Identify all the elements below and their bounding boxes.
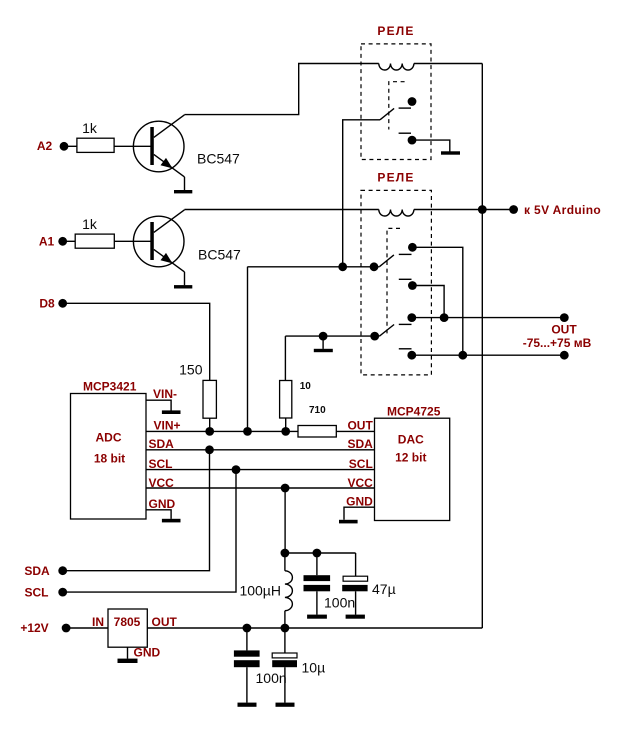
relay K2 lever A	[380, 255, 394, 267]
wire D8 to R 150	[63, 303, 210, 380]
wire common B to ground	[322, 336, 324, 349]
svg-text:MCP3421: MCP3421	[83, 380, 137, 394]
terminal D8	[39, 297, 67, 311]
terminal A1	[39, 234, 67, 248]
relay K2 contact B NO	[399, 313, 416, 324]
wire Q2 collector to relay 2 coil	[185, 209, 379, 211]
node SDA	[205, 445, 214, 454]
svg-text:GND: GND	[134, 646, 161, 660]
wire R 150 to VIN+	[209, 418, 211, 431]
svg-text:100n: 100n	[324, 595, 355, 611]
relay K1 linkage (dashed)	[389, 82, 405, 130]
svg-text:GND: GND	[346, 494, 373, 508]
wire VCC row	[146, 487, 375, 489]
wire SCL terminal to SCL row	[63, 470, 236, 592]
svg-text:OUT: OUT	[551, 323, 577, 337]
svg-text:к 5V Arduino: к 5V Arduino	[524, 203, 601, 217]
node commonA/VIN+	[243, 427, 252, 436]
node SCL	[232, 465, 241, 474]
ground (C2)	[346, 615, 365, 619]
relay K2 body (dashed)	[361, 190, 431, 375]
svg-text:D8: D8	[39, 297, 55, 311]
IC U2 MCP4725 DAC	[375, 405, 450, 521]
wire R710 to DAC OUT	[336, 430, 374, 432]
svg-text:GND: GND	[149, 497, 176, 511]
ground (7805)	[118, 659, 138, 663]
pin GND DAC	[344, 507, 375, 520]
relay K2 contact A NO	[399, 243, 417, 254]
wire common B to R 10	[284, 336, 286, 380]
wire filter node row	[285, 552, 356, 554]
wire Q1 collector to relay 1 coil	[185, 64, 379, 115]
pin GND ADC	[146, 510, 171, 519]
svg-text:150: 150	[179, 361, 203, 377]
node common A junction	[338, 262, 347, 271]
ground (Q2 emitter)	[174, 285, 192, 288]
wire 5V rail (right vertical)	[481, 64, 483, 629]
svg-text:VIN+: VIN+	[154, 419, 181, 433]
wire K2 A-NO down	[412, 247, 462, 355]
wire relay K2 common B	[285, 335, 379, 337]
wire 7805 GND	[127, 647, 129, 659]
svg-text:A1: A1	[39, 234, 55, 248]
svg-text:IN: IN	[92, 615, 104, 629]
wire SDA terminal to SDA row	[63, 450, 210, 571]
wire to 5V Arduino terminal	[482, 209, 513, 211]
svg-text:OUT: OUT	[152, 615, 178, 629]
wire common A to VIN+	[247, 267, 249, 432]
wire 5V output row	[147, 627, 482, 629]
wire relay K1 common	[343, 120, 380, 267]
IC U1 MCP3421 ADC	[71, 380, 147, 520]
node L1 top	[281, 549, 290, 558]
regulator U3 7805	[92, 609, 178, 660]
ground (C3)	[238, 703, 257, 707]
relay K1 lever	[380, 108, 394, 119]
wire +12V to 7805 IN	[66, 627, 108, 629]
pin labels DAC left	[346, 419, 373, 509]
wire coil K1 to 5V rail	[414, 63, 482, 65]
relay K1 contact NC	[399, 133, 417, 144]
ground (K1 NC)	[441, 151, 460, 154]
terminal OUT lower	[560, 351, 569, 360]
capacitor C1 100n	[304, 553, 356, 615]
relay K2 linkage (dashed)	[387, 228, 400, 336]
terminal OUT upper	[560, 313, 569, 322]
terminal SCL	[25, 585, 68, 599]
node coil K2 / 5V rail	[478, 205, 487, 214]
pin VIN-	[146, 387, 177, 411]
wire relay K2 common A	[247, 266, 379, 268]
svg-text:SCL: SCL	[25, 585, 49, 599]
transistor Q2 BC547	[133, 210, 241, 285]
pin labels ADC right	[149, 437, 176, 511]
wire R 1k to Q1 base	[114, 145, 150, 147]
svg-text:12 bit: 12 bit	[395, 451, 426, 465]
ground (C1)	[307, 615, 327, 619]
svg-text:VCC: VCC	[347, 476, 373, 490]
wire coil K2 to 5V rail	[414, 209, 482, 211]
relay K1 contact NO	[399, 97, 417, 108]
svg-text:BC547: BC547	[198, 247, 241, 263]
capacitor C3 100n	[234, 628, 287, 703]
ground (Q1 emitter)	[174, 190, 192, 193]
resistor 1k (A2 base)	[77, 120, 114, 152]
svg-text:-75...+75 мВ: -75...+75 мВ	[523, 336, 592, 350]
svg-text:100µH: 100µH	[239, 583, 281, 599]
node common A pivot	[370, 262, 379, 271]
svg-text:РЕЛЕ: РЕЛЕ	[377, 24, 414, 38]
wire SCL row	[146, 469, 375, 471]
relay K1 body (dashed)	[361, 44, 431, 160]
wire VIN+ row	[146, 430, 298, 432]
resistor 150	[179, 361, 216, 418]
svg-text:+12V: +12V	[20, 621, 48, 635]
ground (K2 common B)	[314, 349, 333, 352]
terminal A2	[37, 139, 69, 153]
svg-text:VCC: VCC	[149, 476, 175, 490]
node common B pivot	[370, 332, 379, 341]
relay K2 contact B NC	[399, 349, 416, 360]
wire R 1k to Q2 base	[114, 240, 150, 242]
svg-text:18 bit: 18 bit	[94, 452, 125, 466]
relay K2 lever B	[380, 325, 395, 337]
svg-text:VIN-: VIN-	[153, 387, 177, 401]
wire A2 to R 1k	[64, 145, 77, 147]
ground (DAC GND)	[339, 520, 358, 524]
svg-text:OUT: OUT	[347, 419, 373, 433]
ground (VIN-)	[162, 410, 181, 414]
svg-text:A2: A2	[37, 139, 53, 153]
node A-NO / OUT lower	[458, 351, 467, 360]
svg-text:1k: 1k	[82, 216, 98, 232]
relay K1 coil	[379, 64, 414, 71]
node R150/VIN+	[205, 427, 214, 436]
svg-text:SDA: SDA	[347, 437, 373, 451]
svg-text:BC547: BC547	[197, 151, 240, 167]
node C100n mid	[313, 549, 322, 558]
svg-text:MCP4725: MCP4725	[387, 405, 441, 419]
svg-text:10µ: 10µ	[302, 660, 326, 676]
ground (C4)	[276, 703, 295, 707]
node C100n bottom	[243, 624, 252, 633]
svg-text:SDA: SDA	[24, 564, 50, 578]
svg-text:РЕЛЕ: РЕЛЕ	[377, 171, 414, 185]
terminal +12V	[20, 621, 70, 635]
terminal SDA	[24, 564, 67, 578]
svg-text:1k: 1k	[82, 120, 98, 136]
wire OUT upper	[412, 317, 565, 319]
wire K2 A-NC down	[412, 286, 444, 318]
svg-text:47µ: 47µ	[372, 581, 396, 597]
svg-text:SDA: SDA	[149, 437, 175, 451]
wire OUT lower	[412, 354, 565, 356]
capacitor C2 47µ	[342, 553, 395, 615]
node VCC	[281, 484, 290, 493]
terminal к 5V Arduino	[509, 203, 601, 217]
svg-text:SCL: SCL	[149, 457, 173, 471]
svg-text:ADC: ADC	[96, 431, 122, 445]
resistor 10	[280, 381, 312, 419]
node common B ground tap	[319, 332, 328, 341]
relay K2 contact A NC	[399, 279, 417, 290]
ground (ADC GND)	[162, 519, 181, 523]
node A-NC / OUT upper	[440, 313, 449, 322]
relay K2 coil	[379, 210, 414, 217]
wire VCC to L1 top	[284, 488, 286, 553]
resistor 710	[298, 405, 336, 437]
wire K1 NC to ground	[412, 140, 450, 151]
transistor Q1 BC547	[133, 115, 240, 191]
svg-text:10: 10	[300, 381, 312, 392]
svg-text:7805: 7805	[114, 615, 141, 629]
wire R 10 to VIN+	[285, 418, 287, 431]
svg-text:SCL: SCL	[349, 457, 373, 471]
svg-text:DAC: DAC	[398, 433, 424, 447]
capacitor C4 10µ	[272, 628, 325, 703]
node R10/VIN+	[281, 427, 290, 436]
resistor 1k (A1 base)	[75, 216, 114, 248]
svg-text:710: 710	[309, 405, 326, 416]
wire A1 to R 1k	[63, 240, 75, 242]
inductor L1 100µH	[239, 553, 292, 628]
node L1 bottom	[281, 624, 290, 633]
svg-text:100n: 100n	[256, 670, 287, 686]
wire SDA row	[146, 449, 375, 451]
